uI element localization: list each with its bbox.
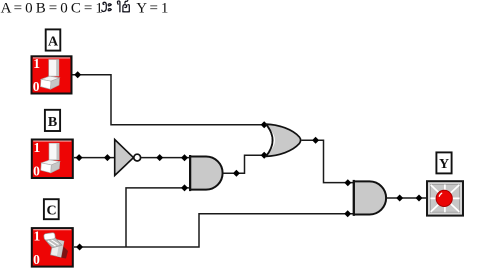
svg-text:A = 0 B = 0 C = 1: A = 0 B = 0 C = 1 (1, 1, 103, 17)
switch B (input B = 0) (31, 139, 74, 180)
node AND1 top input (181, 154, 188, 161)
node A output (74, 71, 81, 78)
wire OR output to AND2 top input (302, 140, 354, 182)
caption text A = 0 B = 0 C = 1 (1, 1, 103, 17)
node AND1 bottom input (181, 184, 188, 191)
node Y input (416, 195, 423, 202)
node NOT input (104, 154, 111, 161)
svg-text:Y = 1: Y = 1 (136, 1, 168, 17)
node AND2 output (396, 195, 403, 202)
svg-text:1: 1 (34, 140, 41, 155)
OR gate U3 (266, 124, 301, 156)
svg-text:0: 0 (33, 252, 40, 267)
switch C (input C = 1) (31, 227, 74, 268)
node OR output (312, 137, 319, 144)
svg-text:1: 1 (33, 56, 40, 71)
AND gate U2 (190, 155, 223, 191)
node OR bottom input (261, 152, 268, 159)
svg-text:B: B (48, 115, 57, 130)
wire C branch to AND1 bottom input (126, 188, 190, 247)
caption thai "จะได้" (102, 1, 130, 12)
svg-text:Y: Y (439, 157, 449, 172)
node C output (76, 244, 83, 251)
NOT gate U1 (115, 140, 141, 176)
wire A to OR gate top input (73, 75, 265, 125)
label Y (436, 152, 451, 173)
switch A (input A = 0) (31, 55, 73, 94)
wire C to AND2 bottom input (74, 214, 354, 247)
label C (44, 199, 59, 219)
svg-text:1: 1 (34, 228, 41, 243)
label A (46, 29, 61, 50)
node B output (76, 154, 83, 161)
svg-text:C: C (47, 204, 57, 219)
wire NOT output to AND1 top input (140, 157, 190, 159)
node NOT output segment (156, 154, 163, 161)
node AND2 bottom input (344, 210, 351, 217)
svg-text:0: 0 (33, 164, 40, 179)
AND gate U4 (354, 180, 386, 216)
label B (45, 110, 60, 131)
node AND1 output (233, 170, 240, 177)
svg-text:0: 0 (33, 79, 40, 94)
output indicator Y (LED on) (426, 180, 464, 216)
wire B to NOT input (74, 157, 115, 159)
svg-text:A: A (48, 34, 59, 49)
wire AND1 output to OR bottom input (223, 155, 270, 173)
node AND2 top input (344, 179, 351, 186)
caption text Y = 1 (136, 1, 168, 17)
node OR top input (261, 121, 268, 128)
wire AND2 output to Y (386, 197, 426, 199)
